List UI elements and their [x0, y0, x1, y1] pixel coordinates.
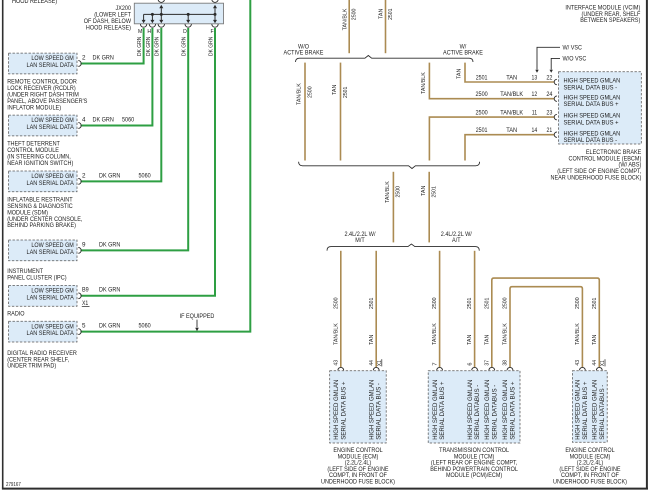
- svg-text:D: D: [183, 29, 187, 35]
- svg-text:LAN SERIAL DATA: LAN SERIAL DATA: [27, 330, 75, 337]
- EBCM module box: [559, 72, 642, 144]
- svg-text:H: H: [147, 29, 151, 35]
- module ECM (left) box: [330, 371, 387, 443]
- svg-text:SERIAL DATA BUS -: SERIAL DATA BUS -: [564, 84, 618, 91]
- svg-text:2501: 2501: [476, 74, 488, 81]
- svg-text:279167: 279167: [6, 482, 21, 488]
- module radio: LOW SPEED GM LAN SERIAL DATA box: [9, 285, 78, 306]
- svg-text:TAN: TAN: [506, 127, 517, 134]
- module theft deterrent control module: LOW SPEED GM LAN SERIAL DATA box: [9, 115, 78, 136]
- svg-text:F: F: [211, 29, 214, 35]
- svg-text:2: 2: [82, 54, 86, 61]
- svg-text:LAN SERIAL DATA: LAN SERIAL DATA: [27, 180, 75, 187]
- svg-text:12: 12: [532, 91, 538, 98]
- svg-text:11: 11: [532, 110, 538, 117]
- svg-text:INFLATOR MODULE): INFLATOR MODULE): [7, 104, 61, 111]
- svg-text:22: 22: [546, 74, 553, 81]
- svg-text:5060: 5060: [139, 323, 152, 330]
- wire DK GRN 5060: digital radio receiver pin 5, off page top: [81, 0, 251, 332]
- svg-text:2500: 2500: [307, 86, 313, 98]
- svg-text:LAN SERIAL DATA: LAN SERIAL DATA: [27, 249, 75, 256]
- svg-text:2501: 2501: [484, 298, 490, 309]
- JX200 pin stems and arrows (top, to off-page): [160, 8, 162, 14]
- svg-text:HIGH SPEED GMLAN: HIGH SPEED GMLAN: [333, 380, 340, 440]
- svg-text:DK GRN: DK GRN: [99, 241, 121, 248]
- svg-text:M/T: M/T: [355, 237, 365, 244]
- svg-text:TAN: TAN: [592, 335, 598, 345]
- svg-text:HIGH SPEED GMLAN: HIGH SPEED GMLAN: [368, 380, 375, 440]
- svg-text:TAN/BLK: TAN/BLK: [500, 91, 524, 98]
- svg-text:DK GRN: DK GRN: [99, 287, 121, 294]
- wire TAN/BLK to EBCM pin 11/23, down to brace 2: [429, 117, 554, 160]
- svg-text:HIGH SPEED GMLAN: HIGH SPEED GMLAN: [592, 380, 599, 440]
- svg-text:BEHIND PARKING BRAKE): BEHIND PARKING BRAKE): [7, 222, 76, 229]
- svg-text:TAN: TAN: [421, 186, 427, 196]
- svg-text:24: 24: [546, 91, 553, 98]
- svg-text:DK GRN: DK GRN: [208, 37, 214, 56]
- svg-text:DK GRN: DK GRN: [93, 116, 115, 123]
- svg-text:2500: 2500: [333, 297, 339, 309]
- svg-text:IF EQUIPPED: IF EQUIPPED: [180, 313, 215, 320]
- svg-text:TAN/BLK: TAN/BLK: [432, 323, 438, 345]
- svg-text:HIGH SPEED GMLAN: HIGH SPEED GMLAN: [484, 380, 491, 440]
- svg-text:HIGH SPEED GMLAN: HIGH SPEED GMLAN: [502, 380, 509, 440]
- svg-text:SERIAL DATABUS -: SERIAL DATABUS -: [599, 385, 606, 440]
- svg-text:UNDER TRIM PAD): UNDER TRIM PAD): [7, 363, 56, 370]
- svg-text:SERIAL DATABUS -: SERIAL DATABUS -: [491, 385, 498, 440]
- svg-text:W/ VSC: W/ VSC: [563, 44, 583, 51]
- svg-text:TAN: TAN: [467, 335, 473, 345]
- svg-text:6: 6: [467, 362, 473, 365]
- svg-text:SERIAL DATA BUS +: SERIAL DATA BUS +: [340, 381, 347, 440]
- svg-text:43: 43: [334, 360, 340, 366]
- svg-text:LAN SERIAL DATA: LAN SERIAL DATA: [27, 294, 75, 301]
- svg-text:SERIAL DATA BUS +: SERIAL DATA BUS +: [582, 381, 589, 440]
- svg-text:SERIAL DATA BUS +: SERIAL DATA BUS +: [439, 381, 446, 440]
- wire TAN 2501 hairpin: TCM pin 37 to ECM(right) pin 44: [492, 278, 600, 367]
- svg-text:BETWEEN SPEAKERS): BETWEEN SPEAKERS): [580, 17, 640, 24]
- svg-text:2501: 2501: [476, 127, 488, 134]
- svg-text:TAN/BLK: TAN/BLK: [333, 323, 339, 345]
- wire TAN/BLK to EBCM pin 12/24 (W/ active brake): [429, 63, 554, 99]
- svg-text:W/O VSC: W/O VSC: [563, 56, 587, 63]
- JX200 pin stems and arrows (bottom): [143, 14, 145, 20]
- svg-text:PANEL CLUSTER (IPC): PANEL CLUSTER (IPC): [7, 274, 66, 281]
- wire DK GRN: IPC pin 9 to JX200 pin D: [81, 28, 189, 250]
- svg-text:2500: 2500: [575, 297, 581, 309]
- svg-text:DK GRN: DK GRN: [99, 323, 121, 330]
- splice brace 1: [296, 56, 474, 63]
- svg-text:13: 13: [532, 74, 538, 81]
- svg-text:HIGH SPEED GMLAN: HIGH SPEED GMLAN: [467, 380, 474, 440]
- svg-text:HOOD RELEASE): HOOD RELEASE): [86, 24, 131, 31]
- svg-text:TAN: TAN: [457, 69, 463, 79]
- wire TAN 2501 to EBCM pin 13/22 (W/ active brake): [465, 63, 555, 82]
- svg-text:SERIAL DATA BUS +: SERIAL DATA BUS +: [510, 381, 517, 440]
- svg-text:2500: 2500: [476, 91, 489, 98]
- svg-text:ACTIVE BRAKE: ACTIVE BRAKE: [443, 50, 483, 57]
- module SDM: LOW SPEED GM LAN SERIAL DATA box: [9, 171, 78, 192]
- svg-text:21: 21: [547, 127, 553, 134]
- svg-text:44: 44: [369, 360, 375, 366]
- module digital radio receiver: LOW SPEED GM LAN SERIAL DATA box: [9, 321, 78, 342]
- svg-text:M: M: [138, 29, 142, 35]
- wire TAN/BLK 2500 hairpin: TCM pin 38 to ECM(right) pin 43: [510, 287, 582, 368]
- svg-text:5060: 5060: [122, 116, 135, 123]
- svg-text:UNDERHOOD FUSE BLOCK): UNDERHOOD FUSE BLOCK): [321, 479, 395, 486]
- svg-text:K: K: [157, 29, 161, 35]
- wire TAN/BLK 2500 between brace 2 and brace 3: [392, 172, 394, 243]
- svg-text:2500: 2500: [432, 297, 438, 309]
- svg-text:2501: 2501: [467, 298, 473, 309]
- svg-text:TAN: TAN: [332, 85, 338, 95]
- svg-text:2501: 2501: [369, 298, 375, 309]
- svg-text:SERIAL DATA BUS -: SERIAL DATA BUS -: [376, 383, 383, 440]
- svg-text:5060: 5060: [139, 172, 152, 179]
- wire TAN/BLK 2500 to ECM(left) pin 43: [340, 251, 342, 367]
- svg-text:SERIAL DATA BUS -: SERIAL DATA BUS -: [564, 137, 618, 144]
- svg-text:5: 5: [82, 323, 86, 330]
- svg-text:SERIAL DATABUS -: SERIAL DATABUS -: [474, 385, 481, 440]
- wire DK GRN: RCDLR pin 2 to JX200 pin M: [81, 28, 144, 64]
- svg-text:ACTIVE BRAKE: ACTIVE BRAKE: [284, 50, 324, 57]
- svg-text:DK GRN: DK GRN: [182, 37, 188, 56]
- svg-text:TAN/BLK: TAN/BLK: [500, 110, 524, 117]
- wire TAN 2501 between brace 2 and brace 3: [428, 172, 430, 243]
- svg-text:7: 7: [432, 362, 438, 365]
- svg-text:2501: 2501: [432, 186, 438, 197]
- svg-text:2501: 2501: [592, 298, 598, 309]
- svg-text:A/T: A/T: [452, 237, 461, 244]
- module RCDLR: LOW SPEED GM LAN SERIAL DATA box: [9, 53, 78, 74]
- connector JX200 body: [134, 3, 223, 24]
- svg-text:44: 44: [592, 360, 598, 366]
- svg-text:2500: 2500: [396, 186, 402, 198]
- svg-text:2500: 2500: [476, 110, 489, 117]
- svg-text:B9: B9: [82, 287, 89, 294]
- svg-text:UNDERHOOD FUSE BLOCK): UNDERHOOD FUSE BLOCK): [553, 479, 627, 486]
- svg-text:TAN/BLK: TAN/BLK: [385, 181, 391, 203]
- svg-text:TAN: TAN: [484, 335, 490, 345]
- svg-text:HIGH SPEED GMLAN: HIGH SPEED GMLAN: [575, 380, 582, 440]
- svg-text:TAN/BLK: TAN/BLK: [297, 83, 303, 105]
- svg-text:TAN: TAN: [379, 9, 385, 19]
- svg-text:TAN: TAN: [506, 74, 517, 81]
- svg-text:2500: 2500: [503, 297, 509, 309]
- svg-text:LAN SERIAL DATA: LAN SERIAL DATA: [27, 124, 75, 131]
- svg-text:TAN: TAN: [369, 335, 375, 345]
- wire TAN/BLK 2500 from VCIM (top): [348, 0, 350, 53]
- wire TAN 2501 to TCM pin 6: [474, 251, 476, 367]
- wire TAN 2501 from VCIM (top): [385, 0, 387, 53]
- svg-text:NEAR UNDERHOOD FUSE BLOCK): NEAR UNDERHOOD FUSE BLOCK): [551, 175, 642, 182]
- svg-text:43: 43: [575, 360, 581, 366]
- svg-text:TAN/BLK: TAN/BLK: [503, 323, 509, 345]
- svg-text:DK GRN: DK GRN: [155, 37, 161, 56]
- svg-text:TAN/BLK: TAN/BLK: [421, 72, 427, 94]
- wire DK GRN 5060: SDM pin 2 to JX200 pin K: [81, 28, 162, 181]
- wire TAN 2501 (W/O active brake branch): [340, 63, 342, 161]
- svg-text:2501: 2501: [388, 9, 394, 20]
- svg-text:14: 14: [532, 127, 538, 134]
- svg-text:LAN SERIAL DATA: LAN SERIAL DATA: [27, 62, 75, 69]
- module ECM (right) box: [572, 371, 607, 443]
- svg-text:37: 37: [485, 360, 491, 366]
- module IPC: LOW SPEED GM LAN SERIAL DATA box: [9, 240, 78, 261]
- svg-text:SERIAL DATA BUS +: SERIAL DATA BUS +: [564, 120, 619, 127]
- splice brace 2: [299, 162, 480, 169]
- svg-text:RADIO: RADIO: [7, 310, 24, 317]
- JX200 bottom terminal cups: [140, 24, 146, 27]
- wire TAN/BLK 2500 (W/O active brake branch): [304, 63, 306, 161]
- svg-text:DK GRN: DK GRN: [93, 54, 115, 61]
- wire TAN/BLK 2500 to TCM pin 7: [439, 251, 441, 367]
- svg-text:SERIAL DATA BUS +: SERIAL DATA BUS +: [564, 101, 619, 108]
- svg-text:4: 4: [82, 116, 86, 123]
- svg-text:2501: 2501: [343, 87, 349, 98]
- svg-text:9: 9: [82, 241, 86, 248]
- wire TAN to EBCM pin 14/21, down to brace 2: [465, 135, 555, 161]
- wire DK GRN: radio pin B9 to JX200 pin F: [81, 28, 216, 296]
- module TCM box: [428, 371, 520, 443]
- svg-text:TAN/BLK: TAN/BLK: [342, 8, 348, 30]
- svg-text:38: 38: [503, 360, 509, 366]
- junction dots on JX200 bus: [151, 13, 154, 16]
- wire TAN 2501 to ECM(left) pin 44: [375, 251, 377, 367]
- svg-text:DK GRN: DK GRN: [137, 37, 143, 56]
- svg-text:NEAR IGNITION SWITCH): NEAR IGNITION SWITCH): [7, 160, 73, 167]
- svg-text:HOOD RELEASE): HOOD RELEASE): [12, 0, 57, 5]
- svg-text:2500: 2500: [352, 9, 358, 21]
- svg-text:2: 2: [82, 172, 86, 179]
- svg-text:DK GRN: DK GRN: [99, 172, 121, 179]
- svg-text:DK GRN: DK GRN: [146, 37, 152, 56]
- splice brace 3: [327, 244, 479, 251]
- svg-text:MODULE (PCM)/ECM): MODULE (PCM)/ECM): [446, 472, 502, 479]
- svg-text:23: 23: [546, 110, 553, 117]
- wire DK GRN 5060: theft deterrent pin 4 to JX200 pin H: [81, 28, 153, 126]
- JX200 internal bus: [144, 13, 215, 15]
- svg-text:TAN/BLK: TAN/BLK: [575, 323, 581, 345]
- svg-text:HIGH SPEED GMLAN: HIGH SPEED GMLAN: [432, 380, 439, 440]
